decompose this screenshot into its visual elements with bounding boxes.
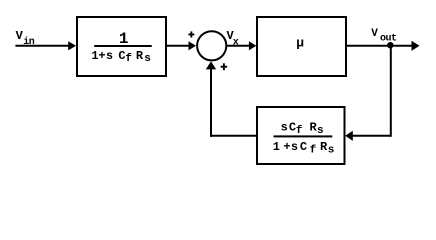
svg-text:+: + [98,49,105,63]
wire corner up to summer [210,67,212,137]
wire feedback block left to corner [210,135,256,137]
svg-text:s: s [281,120,288,134]
svg-text:μ: μ [296,35,304,50]
arrowhead into summing junction [189,41,197,50]
svg-text:s: s [328,145,335,157]
arrowhead output [412,41,420,51]
svg-text:s: s [317,125,324,137]
wire summer to mu block [226,45,249,47]
svg-text:s: s [106,49,113,63]
wire mu block to output [347,45,413,47]
svg-text:R: R [136,49,144,63]
arrowhead into feedback block [345,131,353,141]
arrowhead into mu block [249,41,257,50]
svg-text:+: + [283,140,290,154]
wire junction down right side [390,46,392,137]
plus sign bottom-right of summer [221,63,228,70]
wire input Vin to first block [15,45,69,47]
node Vout label [371,28,397,45]
summing junction circle [197,31,226,60]
node Vin label [16,29,35,48]
svg-text:s: s [291,140,298,154]
svg-text:1: 1 [273,140,280,154]
arrowhead into low-pass block [68,41,76,50]
svg-text:V: V [371,28,378,40]
block U1 mu amplifier [257,17,346,76]
svg-text:C: C [300,140,307,154]
arrowhead into summer bottom [206,61,216,69]
svg-text:f: f [125,53,132,65]
block H1 1/(1+sCfRs) [77,17,166,76]
svg-text:f: f [296,125,303,137]
block H2 feedback sCfRs/(1+sCfRs) [257,107,345,164]
wire right corner to feedback block [352,135,391,137]
wire block H1 to summing junction [167,45,190,47]
svg-text:f: f [310,145,317,157]
junction dot at Vout [387,42,393,48]
plus sign top-left of summer [188,31,194,37]
node Vx label [227,29,239,49]
svg-text:s: s [144,53,151,65]
